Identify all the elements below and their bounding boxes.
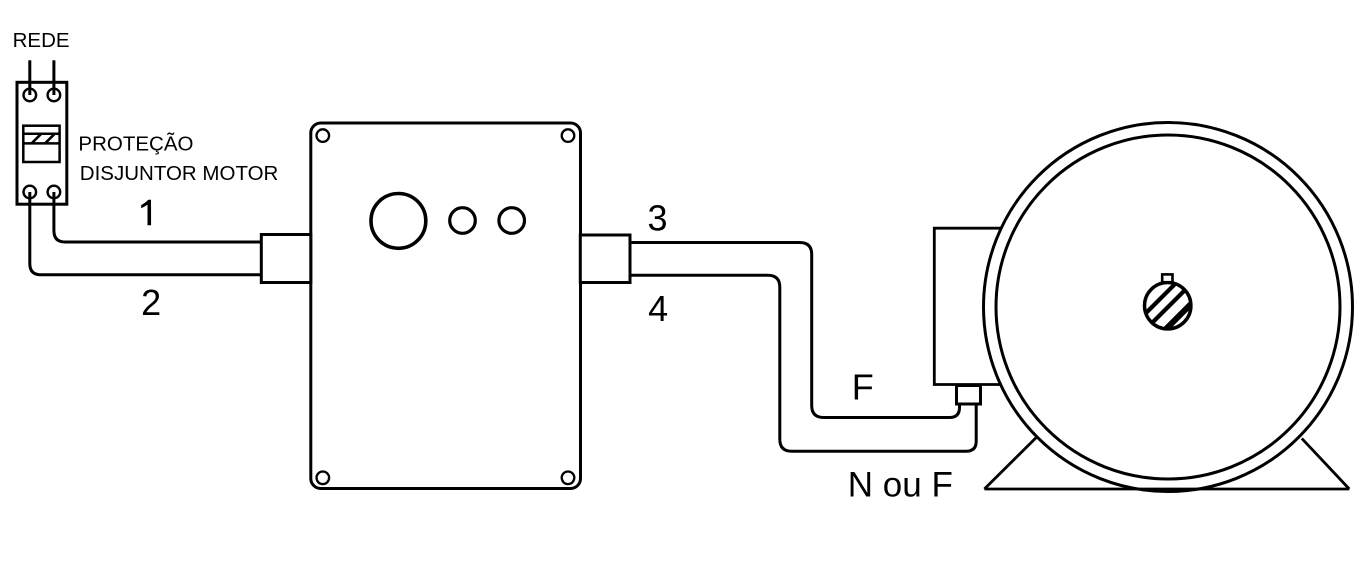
trip element hatch stroke 1: [32, 134, 42, 144]
screw bottom-right: [562, 472, 575, 485]
knob (large): [371, 194, 426, 249]
breaker terminal bottom-right: [48, 186, 61, 199]
trip element band top line: [23, 133, 59, 136]
svg-text:2: 2: [141, 282, 161, 323]
screw bottom-left: [317, 472, 330, 485]
wire 3 (control box to motor, F): [630, 243, 960, 418]
shaft keyway: [1162, 274, 1172, 282]
screw top-right: [562, 129, 575, 142]
motor base left slant: [984, 438, 1036, 489]
wire from REDE to breaker terminal top-left: [28, 60, 31, 95]
svg-text:PROTEÇÃO: PROTEÇÃO: [78, 132, 193, 155]
svg-text:F: F: [852, 367, 874, 408]
breaker terminal top-right: [48, 89, 61, 102]
terminal block right: [580, 235, 630, 283]
circuit breaker (disjuntor motor) body: [17, 82, 67, 204]
shaft hatch: [1131, 278, 1207, 338]
svg-text:N ou F: N ou F: [848, 465, 953, 504]
breaker terminal bottom-left: [24, 186, 37, 199]
motor shaft: [1145, 283, 1191, 329]
wire 2 (breaker to control box): [30, 192, 261, 275]
screw top-left: [317, 129, 330, 142]
svg-text:3: 3: [647, 197, 667, 238]
trip element band bottom line: [23, 142, 59, 145]
motor base bottom line: [984, 488, 1349, 491]
motor inner frame circle: [996, 135, 1340, 479]
svg-text:DISJUNTOR MOTOR: DISJUNTOR MOTOR: [80, 162, 279, 185]
cable gland: [957, 386, 981, 405]
motor terminal box: [934, 228, 1003, 384]
wire 1 (breaker to control box): [54, 192, 261, 242]
label 1 (custom footless glyph): [141, 200, 151, 226]
terminal block left: [261, 235, 311, 283]
svg-text:REDE: REDE: [13, 29, 70, 52]
wire from REDE to breaker terminal top-right: [52, 60, 55, 95]
wire 4 (control box to motor, N ou F): [630, 275, 976, 451]
breaker terminal top-left: [24, 89, 37, 102]
svg-text:4: 4: [648, 288, 668, 329]
indicator small circle 1: [450, 208, 476, 234]
indicator small circle 2: [499, 208, 525, 234]
trip element hatch stroke 2: [45, 134, 55, 144]
motor base right slant: [1302, 438, 1350, 489]
motor outer frame circle: [984, 123, 1353, 492]
control box: [311, 123, 581, 489]
breaker trip element box: [23, 126, 59, 162]
